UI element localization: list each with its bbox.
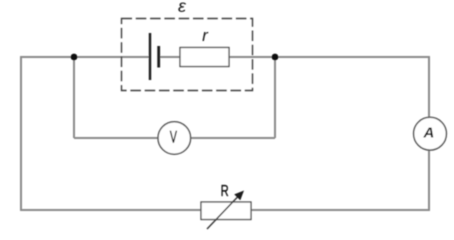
rheostat arrow head bbox=[234, 191, 244, 201]
wire: right vertical side through ammeter bbox=[428, 56, 430, 211]
node: right junction dot bbox=[272, 54, 279, 61]
rheostat adjustment arrow shaft bbox=[207, 196, 239, 229]
svg-text:A: A bbox=[422, 125, 434, 142]
svg-text:r: r bbox=[202, 26, 209, 45]
wire: voltmeter branch horizontal bbox=[74, 137, 275, 139]
wire: bottom side of outer loop through rheostat bbox=[21, 209, 429, 211]
wire: top segment from battery to right corner bbox=[159, 56, 430, 58]
rheostat R body bbox=[201, 202, 251, 220]
voltmeter V body bbox=[158, 122, 191, 155]
node: left junction dot bbox=[71, 54, 78, 61]
wire: top-left segment from outer loop corner to battery bbox=[21, 56, 150, 58]
wire: voltmeter branch right vertical up to node bbox=[274, 57, 276, 138]
battery cell: short negative plate bbox=[157, 46, 160, 68]
battery cell: long positive plate bbox=[149, 33, 151, 80]
svg-text:ε: ε bbox=[178, 0, 187, 16]
wire: left vertical side of outer loop bbox=[20, 56, 22, 211]
wire: voltmeter branch left vertical from node to voltmeter level bbox=[73, 57, 75, 138]
ammeter A body bbox=[414, 117, 447, 150]
svg-text:V: V bbox=[170, 127, 178, 146]
dashed enclosure around battery (source with EMF and internal resistance) bbox=[122, 19, 253, 91]
resistor r body bbox=[180, 48, 229, 67]
svg-text:R: R bbox=[221, 182, 229, 199]
